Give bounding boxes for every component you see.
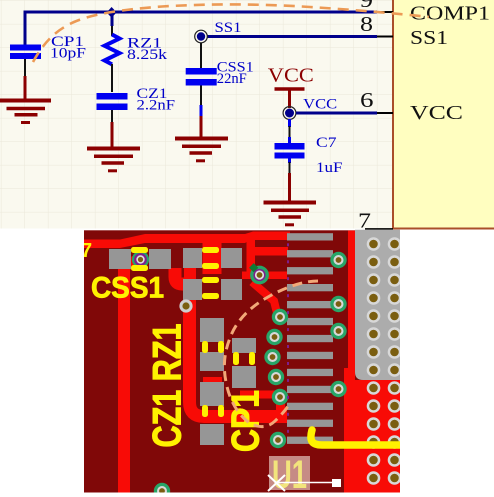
resistor RZ1 [105,14,120,92]
copper trace CP1 to via chain [240,391,282,399]
white mask right of pcb [400,231,494,497]
silkscreen marks [131,247,255,417]
pad RZ1-2 [200,424,224,445]
copper feed to via V2 [247,240,256,275]
wire SS1 net [207,35,377,38]
capacitor CZ1 [97,93,128,123]
svg-text:SS1: SS1 [410,28,448,49]
svg-text:8.25k: 8.25k [127,47,168,63]
schematic background [0,0,494,229]
highlight dashed curve (PCB) [224,281,318,427]
purple marks at IC pad gaps [287,243,289,432]
wire COMP1 net (top) [25,12,377,46]
svg-text:VCC: VCC [410,103,463,124]
power port VCC [268,65,314,109]
svg-text:VCC: VCC [268,65,314,87]
via W1 (gray ring) [179,299,192,312]
white mask below pcb [84,493,400,497]
svg-text:CSS1: CSS1 [91,272,164,305]
pad CZ1-1 [200,318,224,342]
svg-text:VCC: VCC [303,97,337,113]
pad P3 [183,248,202,268]
pad CP1-2 [232,366,256,388]
pin 7 lead [365,228,393,230]
pad CSS1-2 [149,249,171,269]
svg-text:6: 6 [360,88,374,112]
ground (CZ1) [87,122,140,171]
copper trace chain to IC [276,400,285,415]
pin 8 lead [377,36,393,38]
svg-text:2.2nF: 2.2nF [137,98,176,114]
highlight dashed curve (schematic) [33,4,429,62]
copper strip right [348,231,355,383]
svg-text:U1: U1 [272,453,307,497]
pin 9 lead [377,11,393,13]
IC U1 pads [287,233,333,444]
pad P4 [221,248,242,268]
capacitor C7 [275,119,305,174]
wire VCC net [296,112,377,115]
capacitor CP1 [10,14,41,76]
pad P6 [221,279,242,300]
copper trace vertical left [118,256,141,270]
svg-text:COMP1: COMP1 [410,4,490,25]
copper fill between P3 P4 [203,240,222,274]
ground (C7) [264,173,317,225]
svg-text:10pF: 10pF [50,46,86,62]
pad CP1-1 [232,338,256,353]
svg-text:8: 8 [360,12,373,36]
copper feed to pad row 2 [250,247,288,256]
node SS1 (open circle) [195,30,208,43]
via V1 (purple ring) [132,251,149,268]
yellow trace bottom right [311,430,400,445]
svg-text:CZ1 RZ1: CZ1 RZ1 [146,324,190,448]
pad P5 [183,279,202,300]
white mask left of pcb [0,229,84,497]
copper trace via V2 down [252,282,278,317]
svg-text:22nF: 22nF [217,71,247,87]
svg-text:C7: C7 [316,135,337,151]
node junction RZ1 [107,7,117,18]
pin 6 lead [377,112,393,114]
connector body [355,230,400,380]
via V2 (purple ring) [249,263,269,284]
copper bridge CZ1 [203,377,222,383]
pcb board background [84,230,400,492]
via chain left of IC [154,252,347,497]
pad CSS1-1 [109,249,131,269]
sheet symbol (yellow IC box) [393,0,494,229]
node VCC (open circle) [283,107,296,120]
ground (CP1) [0,76,51,123]
ground (CSS1) [175,116,228,161]
copper trace P3 column [175,268,287,417]
copper trace top band [84,232,290,249]
capacitor CSS1 [186,43,217,116]
pad CZ1-2 [200,352,224,371]
connector holes [367,237,402,485]
copper pour bottom right [352,380,400,493]
svg-text:SS1: SS1 [215,20,242,36]
U1 selection overlay [268,453,341,497]
svg-text:1uF: 1uF [316,160,343,176]
pad RZ1-1 [200,382,224,406]
copper trace via to IC [242,272,287,280]
